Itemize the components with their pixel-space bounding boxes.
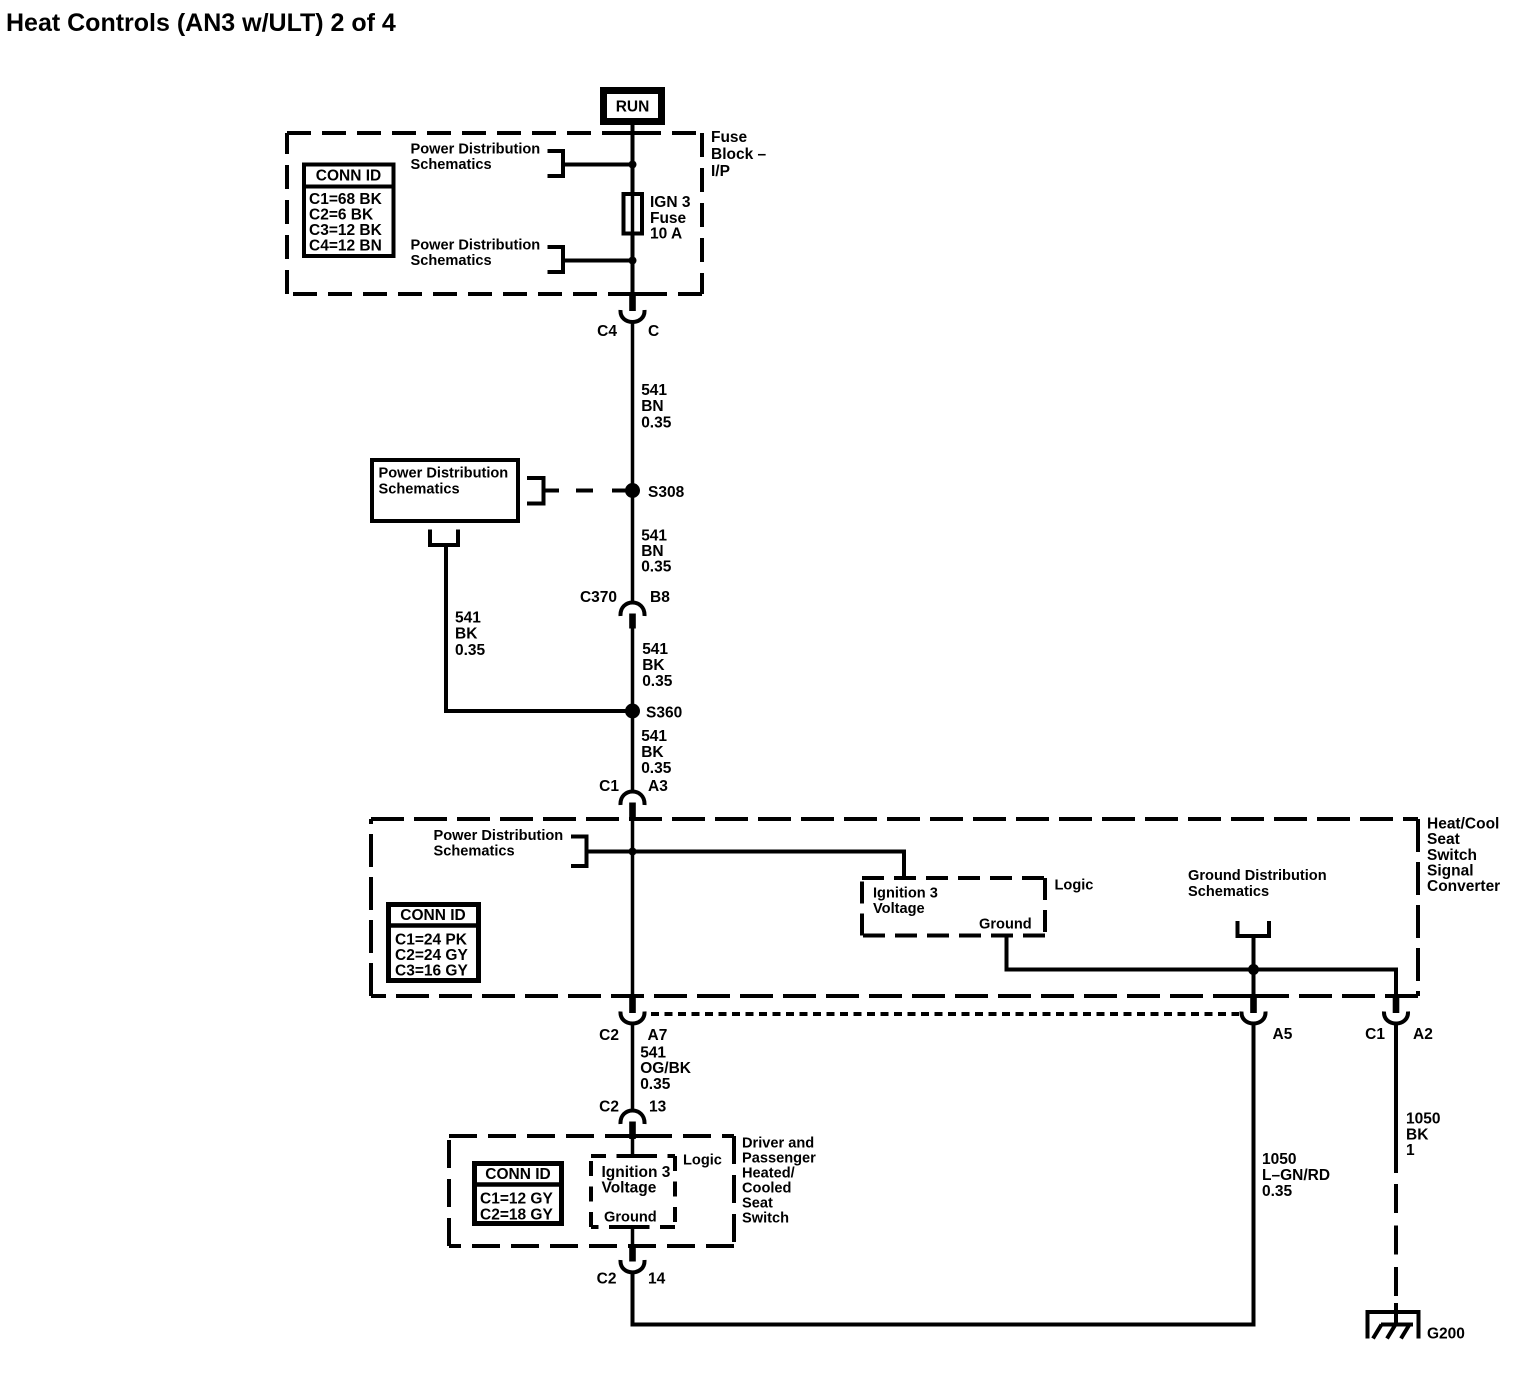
svg-text:Voltage: Voltage bbox=[873, 901, 925, 917]
svg-text:Schematics: Schematics bbox=[434, 844, 515, 860]
U bracket under power distribution box bbox=[430, 530, 458, 546]
wire into switch inner box bbox=[631, 1139, 635, 1156]
connector C1 terminal A3 (female arch + male stub) bbox=[599, 778, 668, 821]
crossing dash at RUN wire / fuse box top bbox=[621, 131, 645, 135]
svg-text:A5: A5 bbox=[1273, 1026, 1293, 1043]
svg-text:BK: BK bbox=[642, 657, 665, 674]
svg-text:I/P: I/P bbox=[711, 163, 730, 180]
svg-text:C1=12 GY: C1=12 GY bbox=[480, 1191, 553, 1208]
svg-text:G200: G200 bbox=[1427, 1326, 1465, 1343]
svg-text:Voltage: Voltage bbox=[602, 1180, 657, 1197]
svg-text:BN: BN bbox=[641, 398, 663, 415]
svg-text:541: 541 bbox=[641, 382, 667, 399]
svg-text:Heat Controls (AN3 w/ULT) 2 of: Heat Controls (AN3 w/ULT) 2 of 4 bbox=[6, 9, 396, 37]
svg-text:Seat: Seat bbox=[1427, 831, 1460, 848]
svg-text:0.35: 0.35 bbox=[641, 415, 672, 432]
wire label 541 BK 0.35 (lower) bbox=[641, 728, 672, 777]
svg-text:Converter: Converter bbox=[1427, 878, 1500, 895]
svg-text:C1=68 BK: C1=68 BK bbox=[309, 191, 383, 208]
fuse block I/P dashed box bbox=[287, 133, 702, 294]
svg-text:BK: BK bbox=[455, 626, 478, 643]
svg-text:541: 541 bbox=[641, 528, 667, 545]
svg-text:Schematics: Schematics bbox=[1188, 884, 1269, 900]
label Ignition 3 Voltage (converter) bbox=[873, 886, 938, 918]
heat/cool seat switch signal converter dashed box bbox=[371, 819, 1418, 996]
label Ignition 3 Voltage (switch) bbox=[602, 1164, 671, 1197]
label Driver and Passenger Heated/Cooled Seat Switch bbox=[742, 1136, 816, 1227]
svg-text:0.35: 0.35 bbox=[642, 673, 673, 690]
wire label 541 BN 0.35 (upper) bbox=[641, 382, 672, 432]
junction dot on main wire bbox=[629, 848, 637, 856]
svg-text:Power Distribution: Power Distribution bbox=[411, 238, 541, 254]
svg-text:Logic: Logic bbox=[1055, 878, 1094, 894]
wire A2 to G200 dashed part bbox=[1394, 1184, 1398, 1311]
svg-text:Schematics: Schematics bbox=[411, 157, 492, 173]
svg-text:IGN 3: IGN 3 bbox=[650, 194, 691, 211]
wire S360 to C1/A3 bbox=[631, 711, 635, 792]
CONN ID table (switch) bbox=[472, 1164, 564, 1224]
svg-text:Heat/Cool: Heat/Cool bbox=[1427, 816, 1499, 833]
label Fuse Block - I/P bbox=[711, 129, 767, 180]
svg-text:Signal: Signal bbox=[1427, 863, 1474, 880]
svg-text:Ground: Ground bbox=[979, 917, 1032, 933]
svg-text:A2: A2 bbox=[1413, 1026, 1433, 1043]
CONN ID table (fuse block) bbox=[302, 165, 395, 257]
wire label 541 BN 0.35 (middle) bbox=[641, 528, 672, 576]
connector C1 terminal A2 (male stub + female cup) bbox=[1365, 996, 1433, 1043]
wire C370 to S360 bbox=[631, 629, 635, 712]
svg-text:Power Distribution: Power Distribution bbox=[434, 828, 564, 844]
crossing dash at C4 stub / fuse box bottom bbox=[621, 292, 645, 296]
svg-text:13: 13 bbox=[649, 1099, 667, 1116]
wire C4 to S308 bbox=[631, 322, 635, 491]
svg-text:541: 541 bbox=[641, 728, 667, 745]
svg-text:541: 541 bbox=[455, 610, 481, 627]
connector C2 terminal 13 (female arch + male stub) bbox=[599, 1099, 666, 1140]
wire A2 to G200 solid part bbox=[1394, 1023, 1398, 1173]
connector C2 terminal 14 (male stub + female cup) bbox=[597, 1246, 666, 1288]
bracket right of power distribution box bbox=[527, 478, 544, 504]
svg-text:Power Distribution: Power Distribution bbox=[411, 142, 541, 158]
branch wire to ignition 3 voltage input bbox=[587, 852, 905, 879]
svg-text:Fuse: Fuse bbox=[650, 210, 687, 227]
crossing dash at A5 stub / converter box bottom bbox=[1242, 994, 1266, 998]
svg-text:C1: C1 bbox=[599, 778, 619, 795]
label Power Distribution Schematics (converter) bbox=[434, 828, 564, 860]
svg-text:B8: B8 bbox=[650, 589, 670, 606]
fuse IGN 3 10A bbox=[624, 194, 691, 243]
svg-text:Switch: Switch bbox=[742, 1211, 789, 1227]
svg-text:BK: BK bbox=[1406, 1127, 1429, 1144]
ignition 3 voltage / ground inner dashed box (switch) bbox=[591, 1156, 675, 1227]
svg-text:C2=6 BK: C2=6 BK bbox=[309, 207, 374, 224]
wire label 1050 L-GN/RD 0.35 bbox=[1262, 1151, 1330, 1200]
svg-text:C4: C4 bbox=[597, 323, 617, 340]
svg-text:1050: 1050 bbox=[1262, 1151, 1296, 1168]
svg-text:OG/BK: OG/BK bbox=[640, 1060, 692, 1077]
svg-text:Fuse: Fuse bbox=[711, 129, 748, 146]
label Power Distribution Schematics (upper) bbox=[411, 142, 541, 174]
svg-text:Ignition 3: Ignition 3 bbox=[602, 1164, 671, 1181]
U bracket under ground distribution schematics bbox=[1238, 921, 1270, 936]
wire label 541 BK 0.35 (left branch) bbox=[455, 610, 486, 660]
svg-text:S308: S308 bbox=[648, 484, 685, 501]
main wire through converter bbox=[631, 821, 635, 995]
svg-text:0.35: 0.35 bbox=[641, 559, 672, 576]
connector C370 terminal B8 (female arch + male stub) bbox=[580, 589, 670, 629]
svg-text:C4=12 BN: C4=12 BN bbox=[309, 238, 382, 255]
svg-text:C3=16 GY: C3=16 GY bbox=[395, 963, 468, 980]
wire C2/14 to A5 (bottom run) bbox=[633, 1023, 1254, 1325]
wire ground out of switch bbox=[631, 1227, 635, 1247]
svg-text:1: 1 bbox=[1406, 1142, 1415, 1159]
bracket to power distribution (upper) bbox=[548, 151, 633, 176]
junction dot lower bbox=[629, 257, 637, 265]
bracket to power distribution (converter) bbox=[571, 837, 587, 867]
ground distribution stem wire bbox=[1252, 936, 1256, 995]
svg-text:CONN ID: CONN ID bbox=[485, 1166, 550, 1183]
svg-text:Switch: Switch bbox=[1427, 847, 1477, 864]
dotted connector tie line bbox=[651, 1012, 1239, 1016]
svg-text:1050: 1050 bbox=[1406, 1111, 1440, 1128]
svg-text:0.35: 0.35 bbox=[1262, 1183, 1293, 1200]
splice S360 bbox=[625, 704, 640, 719]
svg-text:CONN ID: CONN ID bbox=[400, 907, 465, 924]
svg-text:A3: A3 bbox=[648, 778, 668, 795]
power distribution schematics box (solid) bbox=[372, 460, 518, 521]
svg-text:S360: S360 bbox=[646, 705, 682, 722]
ignition 3 voltage / ground inner dashed box (converter) bbox=[862, 878, 1045, 936]
branch wire to S360 bbox=[446, 545, 633, 711]
label Heat/Cool Seat Switch Signal Converter bbox=[1427, 816, 1500, 896]
driver and passenger heated/cooled seat switch dashed box bbox=[449, 1136, 734, 1246]
wire S308 to C370 bbox=[631, 491, 635, 604]
svg-text:C370: C370 bbox=[580, 589, 617, 606]
svg-text:Ground: Ground bbox=[604, 1210, 657, 1226]
svg-text:RUN: RUN bbox=[616, 99, 650, 116]
svg-text:0.35: 0.35 bbox=[640, 1076, 671, 1093]
svg-text:C3=12 BK: C3=12 BK bbox=[309, 222, 383, 239]
crossing dash at wire / switch inner box top bbox=[622, 1154, 643, 1158]
connector C2 terminal A7 (male stub + female cup) bbox=[599, 996, 667, 1044]
wire label 541 BK 0.35 (middle) bbox=[642, 641, 673, 690]
svg-text:Seat: Seat bbox=[742, 1196, 773, 1212]
label Power Distribution Schematics (lower) bbox=[411, 238, 541, 270]
crossing dash at ground wire / switch inner box bottom bbox=[622, 1225, 643, 1229]
svg-text:Logic: Logic bbox=[683, 1153, 722, 1169]
svg-text:541: 541 bbox=[640, 1045, 666, 1062]
svg-text:10 A: 10 A bbox=[650, 226, 682, 243]
svg-text:BN: BN bbox=[641, 543, 663, 560]
svg-text:C2=18 GY: C2=18 GY bbox=[480, 1207, 553, 1224]
svg-text:C2=24 GY: C2=24 GY bbox=[395, 947, 468, 964]
svg-text:Passenger: Passenger bbox=[742, 1151, 816, 1167]
svg-text:C2: C2 bbox=[599, 1027, 619, 1044]
svg-text:Ignition 3: Ignition 3 bbox=[873, 886, 938, 902]
svg-text:CONN ID: CONN ID bbox=[316, 168, 381, 185]
svg-text:14: 14 bbox=[648, 1271, 666, 1288]
svg-text:L–GN/RD: L–GN/RD bbox=[1262, 1167, 1330, 1184]
wire RUN to fuse block bbox=[631, 125, 635, 134]
svg-text:541: 541 bbox=[642, 641, 668, 658]
svg-text:BK: BK bbox=[641, 744, 664, 761]
svg-text:Ground Distribution: Ground Distribution bbox=[1188, 868, 1327, 884]
svg-text:C1=24 PK: C1=24 PK bbox=[395, 932, 468, 949]
wire label 541 OG/BK 0.35 bbox=[640, 1045, 692, 1094]
svg-text:Power Distribution: Power Distribution bbox=[379, 466, 509, 482]
svg-text:Schematics: Schematics bbox=[411, 253, 492, 269]
ignition switch position RUN box bbox=[604, 91, 662, 122]
svg-text:Heated/: Heated/ bbox=[742, 1166, 795, 1182]
svg-text:0.35: 0.35 bbox=[641, 760, 672, 777]
junction dot ground wire bbox=[1248, 964, 1259, 975]
bracket to power distribution (lower) bbox=[548, 247, 633, 272]
crossing dash at C2-13 stub / switch box top bbox=[621, 1134, 645, 1138]
dashed link to S308 bbox=[544, 489, 630, 493]
svg-text:Block –: Block – bbox=[711, 146, 767, 163]
svg-text:C2: C2 bbox=[599, 1099, 619, 1116]
ground wire from inner box to A5 and A2 bbox=[1007, 936, 1397, 996]
label Ground Distribution Schematics bbox=[1188, 868, 1327, 900]
ground G200 symbol bbox=[1368, 1312, 1419, 1339]
svg-text:Schematics: Schematics bbox=[379, 482, 460, 498]
svg-text:C2: C2 bbox=[597, 1271, 617, 1288]
junction dot upper bbox=[629, 161, 637, 169]
connector terminal A5 (male stub + female cup) bbox=[1241, 996, 1292, 1043]
svg-text:A7: A7 bbox=[648, 1027, 668, 1044]
svg-text:Cooled: Cooled bbox=[742, 1181, 791, 1197]
wire C2/A7 to C2/13 bbox=[631, 1023, 635, 1111]
wire through fuse block bbox=[631, 134, 635, 296]
svg-text:C: C bbox=[648, 323, 659, 340]
CONN ID table (converter) bbox=[386, 905, 481, 981]
wire label 1050 BK 1 bbox=[1406, 1111, 1440, 1160]
svg-text:Driver and: Driver and bbox=[742, 1136, 814, 1152]
splice S308 bbox=[625, 483, 640, 498]
svg-text:C1: C1 bbox=[1365, 1026, 1385, 1043]
connector C4 terminal C (male stub + female cup) bbox=[597, 295, 659, 340]
svg-text:0.35: 0.35 bbox=[455, 642, 486, 659]
